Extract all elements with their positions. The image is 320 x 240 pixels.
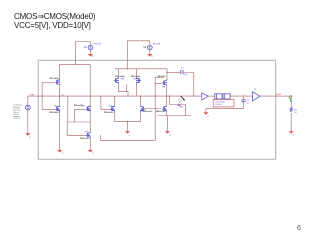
svg-text:M3: M3 — [109, 104, 113, 107]
svg-text:Mbreak: Mbreak — [158, 75, 167, 78]
svg-text:0: 0 — [62, 152, 64, 155]
svg-text:Vin: Vin — [30, 92, 34, 96]
svg-text:R1: R1 — [294, 108, 298, 111]
svg-text:PULSE: PULSE — [153, 43, 161, 46]
svg-text:0: 0 — [293, 134, 295, 137]
svg-text:0: 0 — [129, 134, 131, 137]
svg-text:Vout: Vout — [276, 93, 281, 96]
svg-text:Mbreakn: Mbreakn — [104, 111, 114, 114]
svg-text:M2: M2 — [82, 104, 86, 107]
svg-text:.lib cmos: .lib cmos — [13, 117, 20, 120]
svg-text:M8: M8 — [162, 86, 166, 89]
svg-text:Mbreakp: Mbreakp — [49, 77, 59, 80]
svg-text:Mbreakn: Mbreakn — [143, 110, 153, 113]
svg-text:0: 0 — [30, 136, 32, 139]
svg-text:0: 0 — [151, 55, 153, 58]
svg-text:0: 0 — [92, 55, 94, 58]
svg-text:V2: V2 — [143, 46, 147, 49]
svg-text:0: 0 — [92, 152, 94, 155]
svg-text:A1: A1 — [254, 88, 257, 91]
svg-text:Mbreakn: Mbreakn — [49, 111, 59, 114]
svg-text:V1: V1 — [84, 46, 88, 49]
svg-text:Mbreakn: Mbreakn — [80, 137, 90, 140]
svg-text:1k: 1k — [294, 111, 297, 114]
svg-text:PULSE: PULSE — [94, 43, 102, 46]
svg-text:gnd: gnd — [180, 105, 184, 108]
svg-text:0: 0 — [207, 115, 209, 118]
svg-text:C1: C1 — [181, 66, 185, 69]
svg-text:.inc ex: .inc ex — [215, 103, 222, 106]
svg-text:22p: 22p — [184, 73, 188, 76]
svg-text:0: 0 — [170, 134, 172, 137]
svg-text:Mbreakn: Mbreakn — [156, 110, 166, 113]
